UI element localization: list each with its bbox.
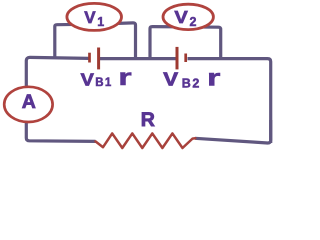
wire: middle horizontal right segment to top-right corner and right vertical <box>188 59 271 143</box>
label V1 (inside voltmeter) <box>84 8 104 29</box>
svg-text:V: V <box>84 8 96 27</box>
wire: middle horizontal left segment with left corner, down to ammeter top <box>26 57 88 86</box>
svg-text:r: r <box>118 65 131 91</box>
svg-text:R: R <box>141 109 155 131</box>
svg-text:B1: B1 <box>95 77 112 89</box>
svg-text:V: V <box>81 70 95 90</box>
battery VB2 short plate (negative) <box>184 54 187 63</box>
wire: voltmeter V1 loop (left vertical, top horizontal, right vertical) <box>55 23 136 59</box>
wire: middle horizontal between batteries <box>100 57 176 60</box>
ammeter A ellipse <box>4 87 52 122</box>
wire: left vertical below ammeter + bottom-left corner + bottom wire to resistor <box>26 122 95 141</box>
resistor R (zigzag) <box>96 133 196 148</box>
battery VB1 short plate (negative) <box>88 53 91 63</box>
label VB1 r (battery 1 emf and internal resistance) <box>81 65 132 91</box>
wire: voltmeter V2 loop (left vertical, top horizontal, right vertical) <box>150 27 221 59</box>
wire: bottom right segment from resistor to bottom-right corner <box>195 120 271 143</box>
svg-text:V: V <box>163 70 178 90</box>
label VB2 r (battery 2 emf and internal resistance) <box>163 65 220 91</box>
svg-text:V: V <box>174 7 188 26</box>
svg-text:2: 2 <box>190 15 197 29</box>
label V2 (inside voltmeter) <box>174 7 196 28</box>
svg-text:A: A <box>22 91 36 113</box>
voltmeter V2 ellipse <box>163 4 213 29</box>
voltmeter V1 ellipse <box>67 3 122 30</box>
battery VB1 long plate (positive) <box>97 48 100 70</box>
svg-text:r: r <box>207 65 220 91</box>
svg-text:1: 1 <box>97 15 104 29</box>
svg-text:B2: B2 <box>182 76 201 90</box>
battery VB2 long plate (positive) <box>176 47 179 70</box>
